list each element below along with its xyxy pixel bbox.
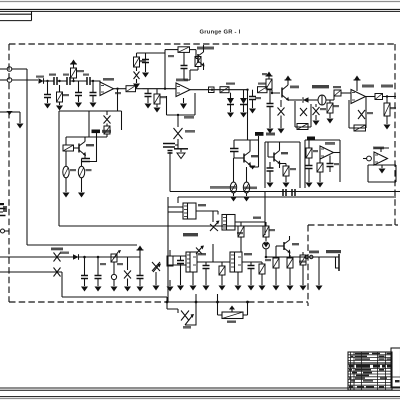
gyrator2 resistor b	[317, 159, 324, 188]
VALUE-LABEL-SMUDGES	[3, 55, 396, 323]
label U2b	[362, 85, 374, 88]
analog switch U3a	[168, 203, 196, 219]
ground footswitch	[316, 286, 323, 291]
label R262 value	[265, 259, 271, 261]
capacitor series C3	[87, 77, 100, 85]
wire q2 top	[234, 90, 259, 140]
label U1a TL062	[103, 78, 114, 81]
capacitor shunt C-a	[44, 81, 51, 103]
label R135 value	[140, 60, 146, 62]
resistor R-q1base	[63, 137, 79, 151]
node rail x165	[164, 88, 166, 90]
ground R-q2b	[243, 197, 250, 202]
op-amp switch U4b	[230, 252, 242, 272]
transistor stage Q1 top wire	[66, 130, 97, 137]
ground row g4	[203, 286, 210, 291]
trimmer arrow 213	[196, 246, 204, 255]
resistor R-q2b oval	[243, 167, 249, 196]
label top r value	[168, 55, 174, 57]
resistor R-222s	[219, 262, 225, 285]
wire U2b out	[366, 96, 376, 98]
STAGE1	[59, 78, 143, 226]
gyrator1 resistor	[280, 164, 290, 188]
vertical to line A	[169, 152, 171, 192]
pot GRUNGE	[167, 302, 196, 329]
sheet bottom edge lines	[0, 396, 400, 398]
label U3b pin	[253, 217, 261, 219]
title block text smudges row3	[355, 358, 391, 359]
ground R-q2a	[230, 197, 237, 202]
resistor R-297	[297, 124, 308, 130]
capacitor shunt C-c	[90, 81, 97, 108]
resistor R-e2 oval	[78, 159, 84, 193]
label U1a plus	[115, 92, 121, 94]
capacitor C-q1e	[82, 137, 97, 162]
STAGE2	[133, 45, 248, 192]
dashed enclosure inner top edge	[308, 224, 398, 226]
connector pins	[305, 255, 313, 258]
node bus 3	[216, 301, 219, 304]
label battery	[3, 206, 7, 212]
gyrator3 box	[368, 165, 396, 182]
wire into U1b	[143, 85, 177, 89]
long rail x168	[167, 197, 169, 302]
title block outer frame	[348, 352, 392, 390]
label U4b name	[244, 253, 252, 255]
label led r value	[269, 229, 275, 231]
diode D-in on signal wire	[39, 78, 55, 84]
label Q2 name	[251, 155, 259, 157]
label U3a pin	[198, 204, 206, 206]
label power2	[60, 252, 69, 254]
capacitor shunt C-281	[278, 100, 285, 134]
battery B1	[0, 203, 6, 216]
label C3 value	[83, 74, 89, 76]
trimmer oval 322	[318, 95, 334, 105]
dashed enclosure bottom edge right part	[248, 301, 308, 303]
capacitor C-180	[177, 256, 184, 285]
node out	[386, 95, 388, 97]
wire into op-amp U1a	[97, 81, 100, 85]
resistor R-233	[238, 222, 244, 252]
ground R-e1	[63, 193, 70, 198]
supply arrow +9V input	[70, 60, 77, 65]
label Q-led name	[292, 243, 299, 245]
loop rail B	[121, 111, 123, 130]
label Q-buf	[290, 86, 299, 89]
ground D-135	[133, 84, 140, 89]
ground row g10	[287, 286, 294, 291]
resistor R-e1 oval	[63, 151, 69, 192]
resistor R-262	[259, 262, 265, 285]
resistor R-led	[263, 222, 269, 241]
resistor R-303	[300, 252, 307, 291]
title block dark band	[349, 365, 391, 368]
wire row to footswitch	[266, 253, 334, 258]
FOOTSW	[263, 222, 341, 291]
label gyrator3	[373, 147, 384, 150]
ground row g5	[219, 286, 226, 291]
BOTTOM	[166, 294, 249, 329]
ground stage2 open	[177, 153, 185, 159]
op-amp U1a	[100, 82, 114, 96]
title block text smudges row9	[349, 386, 384, 388]
label D-in value	[36, 76, 44, 78]
label FOOT SW	[309, 251, 319, 254]
gyrator3 input circle	[363, 156, 371, 161]
wire U1a output	[114, 88, 127, 90]
sheet top border double line	[0, 8, 400, 10]
title block text smudges row7	[349, 377, 387, 378]
zener trimmer R-113	[111, 250, 121, 262]
node at bias R	[72, 80, 74, 82]
wire up from node3	[217, 294, 219, 302]
label pot2 name	[227, 321, 236, 323]
label LM358N	[183, 233, 198, 236]
pot wiper arrow	[210, 221, 220, 232]
INPUT-SECTION	[0, 60, 137, 246]
node U1a output	[116, 88, 118, 90]
node power a	[83, 256, 86, 259]
label Q1 name	[86, 144, 94, 146]
label g1 r value	[290, 168, 296, 170]
capacitor series C2	[67, 77, 87, 85]
label gyrator2	[325, 142, 335, 145]
ground row g2	[177, 286, 184, 291]
title block text smudges row5	[349, 369, 384, 371]
resistor R-330	[327, 100, 334, 124]
node bus 1	[166, 301, 169, 304]
node power b	[97, 256, 100, 259]
resistor R-out1	[126, 86, 143, 92]
right cell mid line	[391, 376, 400, 378]
transistor Q2	[244, 140, 251, 167]
capacitor series C1	[54, 77, 67, 85]
diode X U2b	[358, 110, 365, 119]
vertical rail x165	[164, 50, 166, 89]
title block row lines	[348, 355, 392, 385]
dashed enclosure top edge	[9, 43, 395, 45]
wire lineB left end down	[177, 197, 179, 203]
label bypass	[197, 47, 214, 50]
supply arrow row	[137, 246, 144, 258]
label C2 value	[63, 74, 69, 76]
label g2 c value	[334, 163, 339, 165]
capacitor shunt C-270	[267, 90, 274, 134]
wire jack tip to sleeve rail	[12, 68, 27, 70]
feedback loop U2b	[349, 97, 366, 129]
wire pin to ground	[19, 112, 21, 123]
capacitor C-205	[203, 262, 210, 285]
wire U3a out	[196, 211, 218, 222]
resistor R-mid	[220, 87, 229, 93]
capacitor pair at lineB	[283, 189, 295, 196]
power return rail	[62, 272, 167, 302]
resistor R-bias to supply	[71, 64, 77, 81]
label R233 value	[237, 232, 243, 234]
diode D-power	[73, 254, 79, 260]
title block column lines	[351, 352, 386, 390]
trimmer X left	[152, 262, 161, 291]
title block text smudges row1	[355, 353, 391, 354]
gyrator1 box	[265, 142, 300, 188]
resistor R-276	[273, 255, 279, 285]
supply arrow U2b	[354, 76, 361, 92]
label right	[381, 85, 393, 88]
label Re2 value	[86, 169, 92, 171]
capacitor C-144	[142, 55, 149, 78]
wire top components feed	[137, 53, 166, 55]
wire jack ring to signal path	[12, 79, 38, 81]
label C1 value	[49, 74, 56, 76]
resistor R-269 to supply	[266, 72, 273, 90]
box outline right rail	[264, 192, 266, 236]
node at C-shunt1	[46, 80, 48, 82]
ground row g6	[235, 272, 242, 291]
wire sleeve rail to power	[27, 244, 137, 246]
POWER	[0, 246, 167, 303]
op-amp switch U4a	[186, 252, 197, 272]
wire to buffer	[272, 90, 280, 93]
diode X upper	[54, 253, 61, 262]
label 9.7V	[51, 248, 63, 251]
diode X lower	[54, 268, 61, 277]
analog switch U3b	[222, 215, 265, 231]
bus line C supply	[59, 225, 265, 227]
node fb	[177, 114, 179, 116]
label dark 312	[312, 85, 329, 88]
dashed enclosure bottom edge left part	[9, 301, 166, 303]
diode pair D-316	[313, 104, 320, 126]
node bus 2	[195, 301, 198, 304]
resistor R-167	[167, 250, 173, 266]
ground row g9	[273, 286, 280, 291]
capacitor C-250	[242, 262, 262, 285]
power wire lower	[0, 271, 62, 273]
capacitor shunt C-b	[75, 81, 82, 108]
node mid output	[211, 89, 213, 91]
diode pair D-fb1	[104, 111, 111, 126]
title block text smudges row8	[351, 380, 373, 381]
title block text smudges row2	[351, 356, 385, 357]
gyrator1 capacitor	[267, 162, 274, 188]
label U4a name	[198, 253, 206, 255]
label fs pin	[299, 261, 306, 263]
gyrator2 capacitor b	[327, 156, 334, 173]
capacitor C-169	[168, 151, 173, 154]
resistor R-290	[287, 255, 293, 285]
resistor R-336	[334, 90, 351, 100]
diode D-135	[134, 67, 140, 83]
ground row g1	[167, 280, 174, 292]
wire sleeve rail vertical	[26, 69, 28, 245]
resistor R-135	[134, 53, 140, 67]
capacitor C-165	[163, 144, 178, 148]
label zener value	[117, 263, 123, 265]
capacitor C-185 bar	[174, 144, 188, 152]
feedback left rail	[58, 111, 60, 226]
gyrator2 capacitor a	[306, 166, 313, 188]
label R336 value	[333, 86, 341, 88]
title block right cell	[391, 348, 400, 387]
capacitor shunt C-148	[145, 89, 152, 109]
loop rail A	[88, 111, 90, 137]
label Rout value	[390, 107, 396, 109]
TITLE	[200, 30, 241, 36]
resistor shunt R-a	[57, 85, 63, 105]
capacitor blob C-q2	[255, 132, 275, 136]
SWITCHICS	[152, 87, 334, 302]
label R156 value	[160, 96, 166, 98]
resistor R-215s shunt	[209, 87, 248, 118]
wire gyrator3 top	[374, 148, 389, 152]
transistor Q-bypass	[196, 45, 205, 70]
ground R-e2	[78, 193, 85, 198]
label D316 value	[320, 108, 326, 110]
wire up from node2	[195, 294, 197, 302]
ground row g7	[248, 286, 255, 291]
label g2 r value	[313, 150, 318, 152]
bus line A	[170, 191, 400, 193]
feedback bus horizontal	[59, 110, 122, 112]
wire buffer out	[295, 99, 302, 101]
resistor R-top bypass	[165, 47, 196, 53]
node after C3	[92, 80, 94, 82]
svg-text:Grunge GR - I: Grunge GR - I	[200, 30, 241, 36]
resistor R-q2a oval	[230, 158, 236, 196]
gyrator2 op-amp	[320, 146, 340, 159]
power wire upper	[0, 256, 140, 258]
chassis pin symbol	[0, 111, 20, 115]
capacitor blob g2	[307, 137, 315, 141]
capacitor blob C-q1	[92, 130, 112, 134]
capacitor filter Cf3	[137, 257, 144, 292]
MIDCHAIN	[211, 72, 334, 134]
bottom bus solid	[167, 301, 248, 303]
resistor R-354	[354, 125, 366, 131]
resistor R-196	[190, 57, 201, 71]
input jack J1 tip	[0, 67, 12, 72]
resistor shunt R-156	[154, 89, 161, 113]
title block text smudges row6	[352, 372, 372, 376]
ground row g8	[259, 286, 266, 291]
pot LOUD	[218, 302, 248, 319]
diode arrow q2	[250, 140, 259, 170]
label R269 value	[262, 73, 267, 75]
supply arrow Q-buf	[285, 76, 292, 81]
gyrator2 resistor a	[306, 140, 312, 165]
dashed enclosure right edge	[394, 44, 396, 225]
feedback loop U2a	[295, 101, 311, 127]
node bus 4	[246, 301, 249, 304]
gyrator1 transistor Q3	[268, 142, 281, 168]
GYRATORS	[230, 90, 396, 202]
ground C-a	[44, 104, 51, 109]
footswitch SW1	[334, 254, 339, 271]
resistor R-376	[375, 94, 396, 100]
sheet bottom border double line	[0, 387, 400, 389]
BUSES	[59, 186, 400, 226]
battery terminal node	[1, 229, 10, 233]
node 272	[271, 92, 273, 94]
resistor R-fb1	[89, 126, 110, 137]
feedback loop U1b	[167, 93, 196, 115]
dashed enclosure left edge	[8, 44, 10, 302]
diode X shunt	[124, 257, 131, 292]
capacitor shunt C-252	[249, 90, 256, 114]
transistor Q1	[79, 137, 86, 159]
ground R-a	[56, 106, 63, 111]
resistor R-258	[258, 87, 273, 93]
label R330 value	[333, 105, 339, 107]
label Rmid value	[226, 83, 235, 85]
ground inside loop	[180, 98, 187, 109]
top-left tab	[0, 11, 32, 20]
bus line B	[178, 196, 396, 198]
label Re1 value	[70, 169, 76, 171]
gyrator3 op-amp	[374, 152, 388, 165]
capacitor filter Cf1	[81, 257, 88, 292]
feedback wire down	[117, 89, 119, 111]
diode D-clip	[174, 115, 183, 144]
label bus mid	[243, 187, 257, 190]
label U1b	[176, 79, 188, 82]
wires into U4a	[168, 244, 230, 265]
zener circle	[111, 262, 118, 292]
dashed enclosure inner right edge	[307, 225, 309, 306]
ground row g3	[190, 272, 197, 291]
node at 247	[246, 89, 248, 91]
input jack J1 ring	[0, 78, 12, 83]
label Q3 name	[281, 152, 288, 154]
node at R-shunt1	[58, 80, 60, 82]
capacitor C-184	[181, 52, 191, 80]
gyrator2 box	[305, 140, 340, 188]
diode X fb	[300, 108, 307, 116]
RIGHTCHAIN	[334, 76, 396, 132]
op-amp U2b	[351, 90, 366, 104]
sheet top gray edge	[0, 1, 400, 3]
capacitor filter Cf2	[95, 257, 102, 292]
DASHED-OUTLINE	[9, 44, 398, 306]
label D-clip	[185, 130, 195, 133]
diode D-302	[303, 97, 318, 103]
label fb U2b value	[367, 112, 373, 114]
ground symbol input	[17, 124, 24, 129]
right cell mark	[395, 380, 400, 382]
transistor Q-led	[276, 236, 291, 255]
label R-fb2	[184, 116, 194, 119]
label above bus	[210, 186, 236, 189]
wire U1b output	[190, 89, 248, 91]
ground gyrator3	[379, 165, 386, 174]
label R-bias value	[77, 70, 84, 72]
transistor Q-buf	[282, 80, 295, 101]
label R-a value	[63, 94, 69, 96]
LED D-led	[263, 242, 270, 257]
title block heavy row	[348, 362, 392, 364]
op-amp U1b	[176, 83, 190, 97]
label cf2 value	[100, 263, 106, 265]
capacitor C-q2in	[230, 140, 244, 158]
label C252 value	[255, 97, 261, 99]
label R258 value	[258, 83, 266, 85]
TITLEBLOCK	[348, 348, 400, 390]
node led	[265, 256, 268, 259]
wire footswitch ground	[318, 257, 320, 285]
resistor R-out shunt	[384, 97, 391, 130]
